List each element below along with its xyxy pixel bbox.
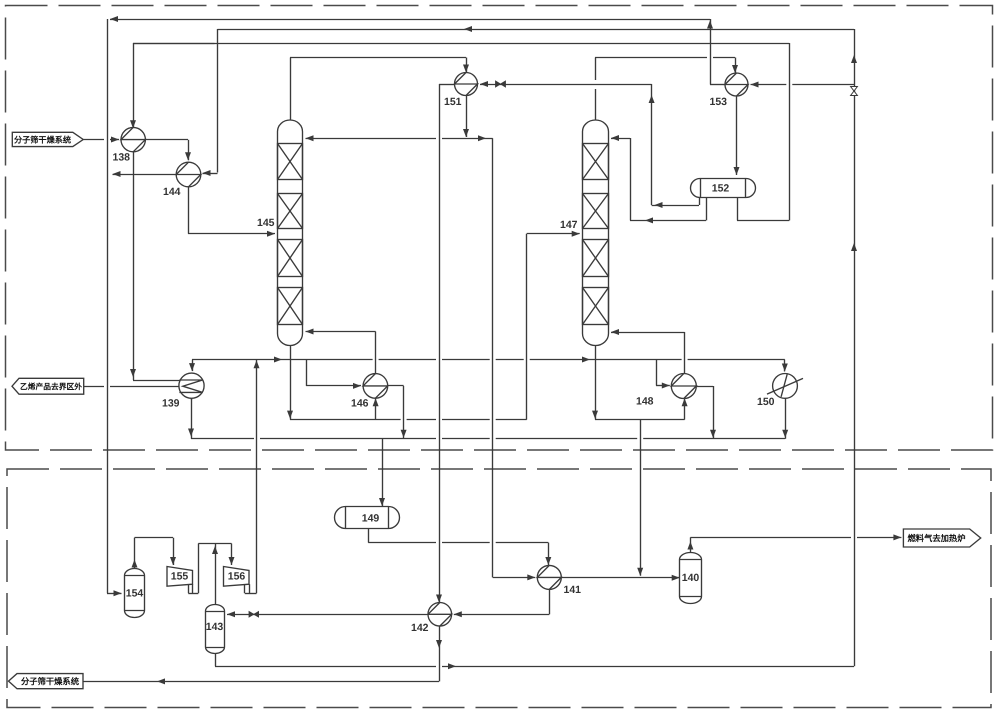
svg-text:分子筛干燥系统: 分子筛干燥系统: [21, 675, 79, 686]
svg-text:分子筛干燥系统: 分子筛干燥系统: [14, 135, 72, 145]
svg-text:138: 138: [112, 152, 130, 164]
svg-text:156: 156: [228, 570, 246, 582]
svg-text:147: 147: [560, 219, 578, 231]
svg-text:154: 154: [126, 587, 144, 599]
svg-text:142: 142: [411, 622, 429, 634]
svg-text:145: 145: [257, 217, 275, 229]
svg-text:150: 150: [757, 396, 775, 408]
svg-text:140: 140: [682, 572, 700, 584]
svg-text:乙烯产品去界区外: 乙烯产品去界区外: [20, 381, 82, 391]
svg-text:燃料气去加热炉: 燃料气去加热炉: [907, 532, 965, 543]
svg-text:149: 149: [362, 512, 380, 524]
svg-text:152: 152: [712, 182, 730, 194]
svg-text:143: 143: [206, 621, 224, 633]
svg-text:153: 153: [709, 96, 727, 108]
svg-text:139: 139: [162, 398, 180, 410]
svg-text:155: 155: [171, 570, 189, 582]
svg-text:141: 141: [563, 584, 581, 596]
svg-text:144: 144: [163, 186, 181, 198]
svg-text:148: 148: [636, 396, 654, 408]
svg-text:151: 151: [444, 96, 462, 108]
svg-text:146: 146: [351, 398, 369, 410]
